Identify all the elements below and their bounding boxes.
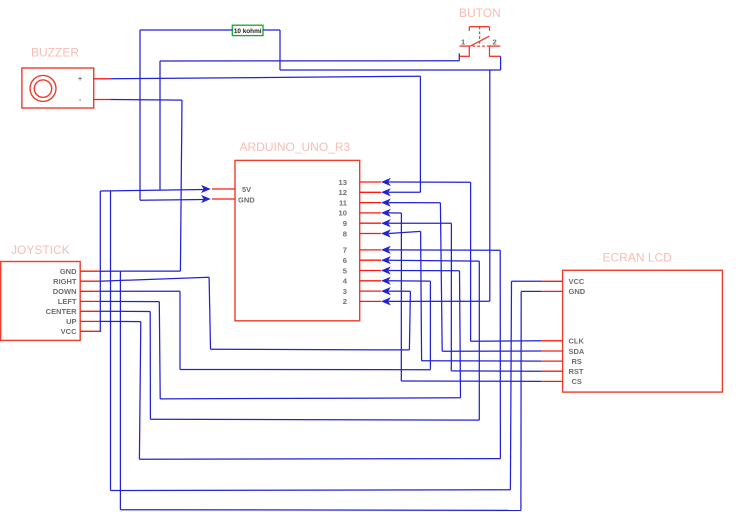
svg-text:11: 11 xyxy=(339,198,348,207)
wire pin6 down to bus420 xyxy=(478,261,480,420)
wire arduino pin10 horizontal xyxy=(389,212,402,214)
wire RS horizontal to LCD xyxy=(422,360,541,362)
svg-text:10: 10 xyxy=(339,209,347,218)
joystick pin CENTER stub xyxy=(80,310,99,312)
wire pin7 down to bus459 xyxy=(499,250,501,458)
wire arduino pin11 horizontal xyxy=(389,202,441,204)
svg-text:SDA: SDA xyxy=(569,347,585,356)
svg-text:+: + xyxy=(78,76,82,83)
arduino pin 2 stub xyxy=(360,300,381,302)
svg-text:9: 9 xyxy=(343,219,347,228)
button pin 1 hook xyxy=(460,46,469,56)
wire arduino pin13 horizontal xyxy=(389,181,471,183)
arduino pin 9 stub xyxy=(360,222,381,224)
svg-text:GND: GND xyxy=(569,287,586,296)
wire button pin2 drop xyxy=(500,56,502,70)
arrow into arduino pin 8 xyxy=(381,229,391,237)
wire arduino pin5 horizontal xyxy=(389,270,460,272)
arduino pin 8 stub xyxy=(360,233,381,235)
svg-text:CS: CS xyxy=(572,377,582,386)
joystick body xyxy=(1,262,81,341)
arrow into arduino pin 2 xyxy=(381,297,391,305)
wire x420 down to arduino pin12 line xyxy=(419,76,421,192)
wire x182 down to joystick GND line xyxy=(180,100,182,271)
wire pin11 down to SDA xyxy=(440,203,442,351)
wire bus420 to joystick CENTER riser xyxy=(150,418,479,421)
arduino pin 6 stub xyxy=(360,259,381,261)
wire arduino pin4 horizontal xyxy=(389,280,431,282)
svg-text:3: 3 xyxy=(343,287,347,296)
wire button pin1 tick xyxy=(458,53,460,60)
wire arduino pin12 horizontal xyxy=(389,191,421,193)
svg-text:5V: 5V xyxy=(242,185,251,194)
lcd pin SDA stub xyxy=(541,350,563,352)
wire arduino pin6 horizontal xyxy=(389,259,480,262)
buzzer pin - stub xyxy=(94,99,111,101)
arduino pin GND stub xyxy=(212,198,235,200)
wire RIGHT riser xyxy=(209,277,210,349)
wire joystick LEFT horizontal xyxy=(99,300,159,302)
arduino pin 5V stub xyxy=(212,188,235,190)
wire arduino pin2 horizontal xyxy=(389,300,490,302)
button symbol body xyxy=(460,27,501,47)
lcd body xyxy=(563,270,723,392)
svg-text:BUZZER: BUZZER xyxy=(31,46,79,60)
lcd pin RS stub xyxy=(541,360,563,362)
arrow into arduino pin 5V xyxy=(201,185,211,193)
wire riser to LCD GND wire xyxy=(520,291,522,510)
arrow into arduino pin 6 xyxy=(381,256,391,264)
svg-text:12: 12 xyxy=(339,188,347,197)
svg-text:GND: GND xyxy=(238,196,255,205)
buzzer pin + stub xyxy=(94,78,111,80)
resistor 10 kohmi xyxy=(232,25,263,35)
svg-text:VCC: VCC xyxy=(61,327,77,336)
wire button net x490 down to arduino pin2 line xyxy=(489,70,491,301)
joystick pin VCC stub xyxy=(80,330,101,332)
wire vertical x140 resistor down to GND line xyxy=(139,30,141,200)
wire buzzer + to x420 xyxy=(110,76,420,79)
wire SDA-left segment xyxy=(211,348,410,351)
arrow into arduino pin 10 xyxy=(381,209,391,217)
wire GND line into arduino GND arrow xyxy=(140,199,204,202)
wire CS horizontal to LCD xyxy=(401,380,541,382)
lcd pin GND stub xyxy=(541,290,563,292)
wire joystick RIGHT horizontal xyxy=(99,277,209,281)
svg-text:DOWN: DOWN xyxy=(53,287,77,296)
wire resistor right xyxy=(263,29,280,31)
wire 5V down to joystick VCC xyxy=(99,191,101,331)
lcd pin CS stub xyxy=(541,380,563,382)
svg-text:2: 2 xyxy=(343,297,347,306)
svg-text:CLK: CLK xyxy=(569,337,585,346)
arduino pin 10 stub xyxy=(360,212,381,214)
arduino pin 4 stub xyxy=(360,280,381,282)
svg-text:RIGHT: RIGHT xyxy=(53,277,77,286)
arrow into arduino pin 9 xyxy=(381,219,391,227)
lcd pin RST stub xyxy=(541,370,563,372)
wire arduino pin8 horizontal xyxy=(389,231,421,233)
lcd pin CLK stub xyxy=(541,340,563,342)
arrow into arduino pin 5 xyxy=(381,266,391,274)
wire UP riser xyxy=(139,322,140,460)
svg-text:UP: UP xyxy=(66,317,76,326)
wire bus398 to joystick LEFT riser xyxy=(160,398,460,399)
arrow into arduino pin 11 xyxy=(381,199,391,207)
svg-text:13: 13 xyxy=(339,178,347,187)
joystick pin DOWN stub xyxy=(80,290,99,292)
wire joystick UP horizontal xyxy=(99,320,141,322)
svg-text:RS: RS xyxy=(572,357,582,366)
svg-text:8: 8 xyxy=(343,229,347,238)
wire arduino pin7 horizontal xyxy=(389,249,501,251)
wire bus370 to joystick DOWN riser xyxy=(180,369,430,371)
wire bus459 to joystick UP riser xyxy=(139,458,500,461)
wire SDA horizontal to LCD xyxy=(442,350,541,352)
wire x280 down xyxy=(279,30,281,70)
svg-text:RST: RST xyxy=(569,367,584,376)
svg-text:VCC: VCC xyxy=(569,277,585,286)
svg-text:ARDUINO_UNO_R3: ARDUINO_UNO_R3 xyxy=(240,140,351,154)
joystick pin RIGHT stub xyxy=(80,280,99,282)
wire 5V tap x110 down to bottom bus xyxy=(110,191,112,491)
wire RST horizontal to LCD xyxy=(451,370,541,372)
wire y70 resistor to button pin2 xyxy=(280,69,501,71)
svg-text:10 kohmi: 10 kohmi xyxy=(234,28,262,35)
svg-text:GND: GND xyxy=(60,267,77,276)
joystick pin LEFT stub xyxy=(80,300,99,302)
wire pin5 down to bus398 xyxy=(460,271,461,398)
svg-text:2: 2 xyxy=(493,38,497,47)
wire 5V line from corner x100 to arduino 5V arrow xyxy=(100,190,204,192)
wire pin13 down to CLK xyxy=(470,182,472,341)
arrow into arduino pin GND xyxy=(201,195,211,203)
wire buzzer - to x182 xyxy=(110,99,182,102)
svg-text:7: 7 xyxy=(343,246,347,255)
wire joystick GND tap x120 down to bottom bus xyxy=(119,271,121,510)
wire joystick CENTER horizontal xyxy=(99,310,150,312)
wire bottom bus 5V to LCD VCC xyxy=(111,489,511,492)
button pin 2 hook xyxy=(490,46,501,56)
wire LCD GND horizontal xyxy=(521,290,541,292)
arduino pin 12 stub xyxy=(360,191,381,193)
wire riser up to LCD VCC wire xyxy=(510,281,511,490)
svg-text:ECRAN LCD: ECRAN LCD xyxy=(603,251,673,265)
wire resistor left to GND net: resistor-(140,30) xyxy=(140,29,232,31)
wire button pin1 net: horizontal y61 xyxy=(160,60,459,62)
wire LEFT riser xyxy=(158,302,161,399)
svg-text:LEFT: LEFT xyxy=(58,297,77,306)
svg-text:6: 6 xyxy=(343,256,347,265)
svg-text:CENTER: CENTER xyxy=(46,307,77,316)
wire LCD VCC horizontal xyxy=(512,280,542,282)
arrow into arduino pin 7 xyxy=(381,246,391,254)
wire DOWN riser xyxy=(179,291,181,369)
buzzer BUZZER body xyxy=(22,68,94,108)
svg-text:JOYSTICK: JOYSTICK xyxy=(11,243,70,257)
joystick pin GND stub xyxy=(80,270,99,272)
arduino pin 5 stub xyxy=(360,270,381,272)
arduino body xyxy=(235,160,360,320)
wire CLK horizontal to LCD xyxy=(471,340,541,343)
wire pin4 down to bus370 xyxy=(429,281,431,370)
arduino pin 11 stub xyxy=(360,202,381,204)
wire arduino pin3 horizontal xyxy=(389,290,411,292)
arduino pin 7 stub xyxy=(360,249,381,251)
wire CENTER riser xyxy=(149,312,151,420)
lcd pin VCC stub xyxy=(541,280,563,282)
arrow into arduino pin 4 xyxy=(381,277,391,285)
wire pin3 down to SDA-left segment xyxy=(409,291,410,350)
svg-text:BUTON: BUTON xyxy=(459,6,501,20)
wire arduino pin9 horizontal xyxy=(389,222,452,224)
arduino pin 3 stub xyxy=(360,290,381,292)
wire pin8 down to RS xyxy=(421,231,422,360)
wire joystick GND horizontal xyxy=(99,270,180,272)
arrow into arduino pin 13 xyxy=(381,178,391,186)
arrow into arduino pin 3 xyxy=(381,287,391,295)
joystick pin UP stub xyxy=(80,320,99,322)
arrow into arduino pin 12 xyxy=(381,188,391,196)
arduino pin 13 stub xyxy=(360,181,381,183)
wire pin9 down to RST xyxy=(450,223,452,371)
wire bottom bus GND to LCD GND xyxy=(120,509,521,512)
wire joystick DOWN horizontal xyxy=(99,290,180,292)
wire button pin1 riser x160 down to 5V line xyxy=(159,61,161,190)
wire pin10 down to CS xyxy=(400,213,402,381)
